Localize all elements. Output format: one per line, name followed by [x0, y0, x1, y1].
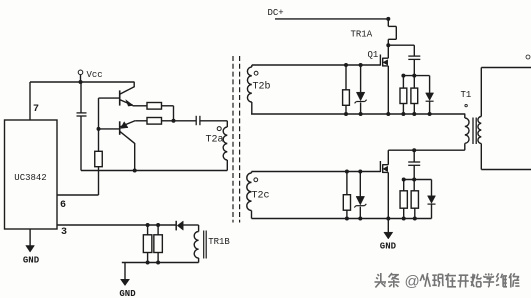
svg-text:Vcc: Vcc	[87, 70, 103, 80]
svg-text:T2b: T2b	[253, 81, 271, 93]
svg-text:T2c: T2c	[252, 191, 270, 202]
svg-text:3: 3	[61, 227, 67, 238]
svg-text:7: 7	[33, 104, 39, 115]
svg-text:TR1B: TR1B	[208, 237, 230, 247]
svg-text:TR1A: TR1A	[351, 30, 373, 40]
svg-text:GND: GND	[119, 289, 136, 298]
svg-text:UC3842: UC3842	[14, 173, 46, 183]
svg-text:GND: GND	[380, 242, 397, 252]
svg-text:DC+: DC+	[268, 8, 284, 18]
svg-text:@: @	[405, 273, 420, 290]
svg-text:6: 6	[60, 200, 66, 211]
svg-text:T1: T1	[461, 90, 472, 100]
svg-text:T2a: T2a	[206, 135, 224, 146]
svg-text:GND: GND	[23, 256, 40, 266]
svg-text:Q1: Q1	[368, 50, 379, 60]
